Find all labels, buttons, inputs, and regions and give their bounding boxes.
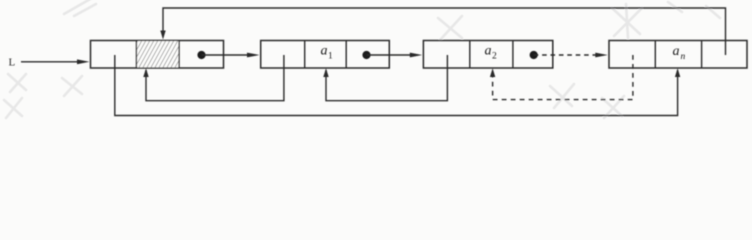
wire: head.next arrow to node1 — [202, 54, 251, 56]
watermark strokes (faint scan artifacts) — [4, 0, 720, 118]
node head divider 1 — [136, 41, 138, 69]
node a2 divider 1 — [469, 41, 471, 69]
node a1 box — [261, 41, 390, 69]
wire: a1.next arrow to node a2 — [367, 54, 414, 56]
svg-text:a: a — [321, 43, 328, 58]
node a2 box — [423, 41, 552, 69]
node head next pointer dot — [197, 51, 205, 59]
arrowhead down into head node top — [160, 31, 165, 40]
node a2 divider 2 — [512, 41, 514, 69]
node a1 divider 1 — [304, 41, 306, 69]
wire: L arrow to head node — [21, 61, 80, 63]
node head box — [91, 41, 224, 69]
node an divider 2 — [701, 41, 703, 69]
node head hatched data cell — [137, 41, 178, 67]
node an box — [609, 41, 747, 69]
svg-text:2: 2 — [492, 52, 497, 62]
node a1 next pointer dot — [362, 51, 370, 59]
node head divider 2 — [178, 41, 180, 69]
node an divider 1 — [654, 41, 656, 69]
wire: a1.prev loop to head node (solid) — [146, 55, 284, 101]
wire: an.prev dashed loop to node a2 — [493, 55, 633, 100]
wire: a2.prev loop to node a1 (solid) — [326, 55, 447, 101]
svg-text:a: a — [485, 43, 492, 58]
node a2 next pointer dot — [530, 51, 538, 59]
node a1 divider 2 — [345, 41, 347, 69]
svg-text:1: 1 — [328, 52, 333, 62]
svg-text:n: n — [681, 52, 686, 62]
wire: head.prev circular link to node an (bottom long wire) — [115, 55, 678, 116]
wire: a2.next dashed arrow toward node an — [534, 54, 599, 56]
svg-text:L: L — [9, 57, 16, 69]
wire: top circular link from node4 next field to head node — [163, 8, 726, 55]
svg-text:a: a — [673, 44, 680, 59]
